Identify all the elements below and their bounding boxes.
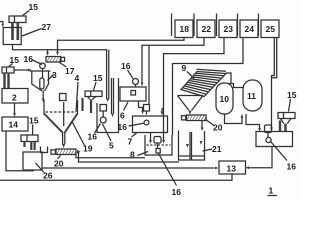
dip tube into vessel 5 [111,78,114,117]
wire from 27-line down into vessel 5 [48,50,110,102]
svg-text:25: 25 [266,24,276,34]
wire panel 9 outlet to vessel 10 [226,73,231,84]
wire box14 to bottom line [6,131,34,171]
wire vessel 11 drain elbow [246,114,261,132]
feed box B (two-cell) [2,67,14,73]
small box above vessel 7 [144,105,150,112]
feed box A (two-cell) [9,16,26,23]
svg-text:5: 5 [109,141,114,151]
U trap 1 [179,131,191,161]
svg-text:16: 16 [88,132,98,142]
feed tubes into vessel 2 [5,73,9,89]
label 16 vessel7 [118,122,144,132]
wire long line into box 13 [42,167,219,170]
wire screw20L drain to long line [79,152,180,162]
label 6 [120,102,128,121]
vessel 11 [243,80,262,111]
label 3 [48,70,58,81]
svg-text:16: 16 [172,187,182,197]
vessel 27 [3,28,21,45]
label 21 [203,144,222,154]
svg-text:15: 15 [10,55,20,65]
vessel 8 [145,135,172,155]
label 15 third [29,116,39,136]
wire vessel6 drain to vessel 7 [139,101,145,114]
label 16 vessel6 [121,61,133,79]
svg-text:2: 2 [12,93,17,103]
label 8 [130,150,148,160]
wire drain 27 to feeder 17 [13,45,48,54]
dissolver vessel 19 [44,94,78,134]
label 16 vessel3 [24,54,43,65]
feed box D (two-cell) [85,91,102,97]
finisher vessel [256,132,293,147]
svg-text:22: 22 [202,24,212,34]
wire from box 25 down to small box f [272,38,275,129]
svg-text:9: 9 [182,63,187,73]
svg-text:16: 16 [121,61,131,71]
figure number 1 [268,186,278,196]
box 14 [2,117,28,131]
vessel 6 [120,79,146,102]
screw feeder 20 right [182,115,207,121]
tube from box D [88,97,97,114]
svg-text:8: 8 [130,150,135,160]
box 13 [219,161,246,174]
label 20 right [206,120,223,133]
feed box E (two-cell) [278,113,295,124]
wire screw20R drain to trap [201,121,204,132]
svg-text:10: 10 [220,94,230,104]
svg-text:20: 20 [54,159,64,169]
motor circle on vessel 3 [40,63,46,78]
label 9 [182,63,195,79]
label 16 finisher [270,141,296,172]
wire vessel10 bottom to vessel 11 [225,114,244,124]
label 15 top-left [23,2,39,16]
feed box C (two-cell) [21,135,38,142]
vessel 2 [2,89,28,104]
svg-text:6: 6 [120,111,125,121]
svg-text:21: 21 [212,144,222,154]
vessel 5 [97,78,119,133]
funnel under 9 [178,95,204,97]
small box f above finisher [265,125,272,137]
svg-text:18: 18 [180,24,190,34]
svg-text:23: 23 [224,24,234,34]
svg-text:14: 14 [9,120,19,130]
wire box B to vessel 3 [14,69,32,72]
feed tube into 19 [81,98,83,111]
svg-text:7: 7 [128,137,133,147]
label 16 bottom mid leader [159,154,182,198]
label 26 [36,163,53,181]
wire 19 outlet to screw 20 [62,133,65,148]
svg-text:16: 16 [118,122,128,132]
svg-text:15: 15 [287,90,297,100]
wire vessel 3 drain [42,91,45,103]
wire feed left into 27 [0,22,4,28]
vessel 7 [133,116,168,133]
label 5 [103,124,115,151]
svg-text:27: 27 [42,22,52,32]
screw feeder 17 [46,57,65,63]
svg-text:11: 11 [247,91,256,101]
feed tubes into vessel 26 [25,142,35,151]
label 7 [128,133,138,147]
svg-text:16: 16 [287,162,297,172]
svg-text:1: 1 [269,186,274,196]
wire finisher to box 13 [246,147,273,170]
label 19 [72,122,93,154]
boxes 18 22 23 24 25 [172,14,280,38]
wire long bottom line [0,174,232,180]
label 15 second [9,55,20,67]
wire vessel 10 top link to 11 [228,84,244,88]
svg-text:24: 24 [245,24,255,34]
arrow into feeder 17 [56,52,59,56]
wire branch from top line down into vessel 7 right [161,109,164,116]
wire L22 from box22 to vessel 6 [141,38,204,105]
U trap 2 [192,131,205,160]
wire L23 from box23 to small box above vessel 7 [164,38,225,141]
label 16 vessel5 [88,124,101,142]
svg-text:17: 17 [65,66,75,76]
label 15 fourth [93,73,103,91]
vessel 26 [23,152,42,170]
wire line from box 18 down-left to feeder 17 [58,38,185,53]
svg-text:4: 4 [75,73,80,83]
vent loop on vessel 26 [41,147,48,153]
wire L24 from box24 down to trap [162,38,243,144]
svg-text:26: 26 [43,171,53,181]
vessel 10 [216,83,233,114]
label 17 [60,63,75,77]
label 20 left [54,156,64,169]
label 15 right [287,90,297,112]
arrows in trap [186,141,202,148]
label 27 [22,22,51,36]
feed tubes from box E [280,121,286,132]
feed tubes into vessel 27 [13,23,18,41]
vessel 3 [30,71,51,91]
svg-text:20: 20 [213,123,223,133]
svg-text:15: 15 [29,2,39,12]
svg-text:15: 15 [29,116,39,126]
wire 2 to 14 [13,103,16,117]
svg-text:13: 13 [227,164,237,174]
svg-text:15: 15 [93,73,103,83]
wire vessel7 drain into vessel 8 [149,133,152,144]
heat exchanger 9 [181,69,226,96]
label 4 leader pipe [75,73,80,112]
screw feeder 20 left [51,149,81,155]
